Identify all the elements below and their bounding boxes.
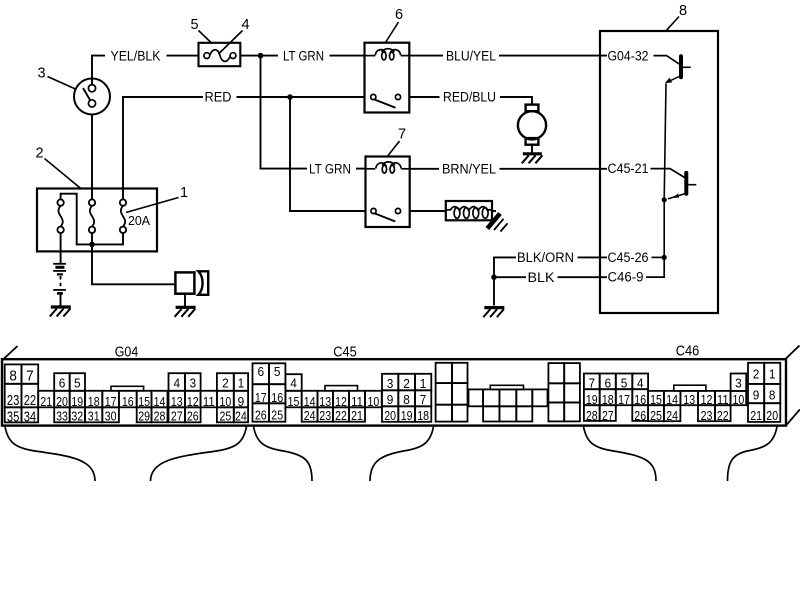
wire Q1 emitter down to Q2 bbox=[664, 84, 666, 200]
pin G04-18 bbox=[85, 391, 102, 408]
wire relay 6 coil output bbox=[409, 55, 443, 57]
svg-text:34: 34 bbox=[24, 408, 36, 425]
harness curve G04 left bbox=[5, 427, 95, 482]
connector G04 left block (pins 8,7,23,22,35,34) bbox=[5, 364, 22, 383]
BLK ground bbox=[483, 308, 504, 318]
svg-text:18: 18 bbox=[417, 408, 429, 423]
svg-text:2: 2 bbox=[222, 375, 229, 390]
svg-text:20: 20 bbox=[766, 408, 778, 423]
svg-text:7: 7 bbox=[420, 392, 427, 407]
pin C46-13 bbox=[680, 391, 698, 405]
svg-text:11: 11 bbox=[203, 394, 215, 409]
wire into relay 7 coil bbox=[366, 168, 376, 170]
pin C45-23 bbox=[318, 407, 334, 421]
wire into relay 6 coil bbox=[365, 55, 376, 57]
svg-text:21: 21 bbox=[40, 394, 52, 409]
svg-text:G04: G04 bbox=[115, 344, 139, 360]
blank connector key tab bbox=[490, 385, 523, 389]
harness curve C46 right bbox=[728, 427, 778, 482]
connector G04 key tab bbox=[111, 386, 144, 391]
svg-text:5: 5 bbox=[74, 375, 81, 390]
wire LT GRN to relay 6 coil bbox=[330, 55, 366, 57]
wire junction down to C46-9 pin bbox=[646, 257, 664, 277]
pin C45-14 bbox=[302, 391, 318, 408]
horn ground bbox=[175, 307, 196, 317]
svg-text:20A: 20A bbox=[128, 213, 150, 228]
control module 8 box bbox=[600, 31, 718, 313]
transistor Q2 (in module) bbox=[668, 173, 696, 199]
svg-text:35: 35 bbox=[7, 408, 19, 425]
wire fuse to LT GRN junction bbox=[240, 55, 278, 57]
pin C46-7 bbox=[584, 374, 600, 390]
pin G04-19 bbox=[70, 391, 85, 408]
pin C45-21 bbox=[349, 407, 365, 421]
washer pump solenoid box bbox=[446, 201, 492, 220]
fuse panel 2 box bbox=[37, 189, 157, 252]
pin G04-29 bbox=[137, 407, 152, 422]
svg-text:23: 23 bbox=[319, 408, 331, 423]
leader line to relay 6 bbox=[386, 22, 399, 43]
connector C45 key tab bbox=[325, 386, 358, 391]
solenoid coil (4 loops) bbox=[446, 207, 492, 219]
svg-text:10: 10 bbox=[368, 394, 380, 409]
svg-text:26: 26 bbox=[634, 408, 646, 423]
svg-text:10: 10 bbox=[733, 392, 745, 407]
pin G04-13 bbox=[169, 391, 186, 408]
pin C46-24 bbox=[664, 405, 681, 421]
wire G04-32 to transistor base bbox=[654, 56, 680, 65]
wire C45-26 stub to junction bbox=[652, 256, 664, 258]
svg-text:9: 9 bbox=[387, 392, 394, 407]
svg-text:16: 16 bbox=[122, 394, 134, 409]
svg-text:1: 1 bbox=[180, 185, 188, 201]
wire relay 6 switch output bbox=[409, 96, 439, 98]
pin C46-28 bbox=[584, 405, 600, 421]
svg-text:6: 6 bbox=[605, 375, 612, 390]
pin C46-23 bbox=[698, 405, 715, 421]
connector C45 right block (pins 3,2,1,9,8,7,20,19,18) bbox=[382, 374, 398, 391]
pin G04-5 bbox=[70, 373, 85, 391]
pin C46-17 bbox=[616, 389, 633, 405]
wire junction down to relay 7 LT GRN bbox=[261, 56, 308, 169]
pin G04-28 bbox=[152, 407, 168, 422]
pin G04-31 bbox=[85, 407, 102, 422]
relay 6 switch contacts bbox=[371, 94, 401, 107]
svg-text:7: 7 bbox=[398, 127, 406, 143]
ignition switch 3 (circle with contacts) bbox=[74, 79, 110, 115]
svg-text:4: 4 bbox=[637, 375, 644, 390]
pin G04-16 bbox=[119, 391, 137, 408]
pin G04-21 bbox=[38, 391, 54, 408]
wire fuse 2-1 to battery bbox=[60, 233, 62, 263]
svg-text:19: 19 bbox=[401, 408, 413, 423]
svg-text:BLU/YEL: BLU/YEL bbox=[446, 48, 496, 63]
relay 7 box bbox=[366, 157, 410, 228]
pin C46-6 bbox=[600, 374, 616, 390]
wire RED junction down to relay 7 switch bbox=[290, 97, 366, 211]
svg-text:C46-9: C46-9 bbox=[608, 270, 644, 285]
wire fuse panel to horn bbox=[92, 244, 175, 284]
svg-text:2: 2 bbox=[753, 367, 760, 382]
junction node at LT GRN bbox=[258, 53, 264, 59]
relay 6 coil bbox=[375, 49, 401, 60]
pin G04-3 bbox=[185, 373, 201, 391]
fuse 5 box bbox=[199, 43, 241, 66]
svg-text:4: 4 bbox=[290, 376, 297, 391]
svg-text:28: 28 bbox=[586, 408, 598, 423]
leader line to fuse element 4 bbox=[219, 31, 243, 55]
svg-text:26: 26 bbox=[187, 409, 199, 424]
svg-text:20: 20 bbox=[384, 408, 396, 423]
wire horn to ground bbox=[184, 294, 186, 306]
pin C45-22 bbox=[333, 407, 349, 421]
wire relay 7 coil output bbox=[410, 168, 439, 170]
svg-text:24: 24 bbox=[666, 408, 678, 423]
svg-text:4: 4 bbox=[241, 17, 249, 33]
connector C46 key tab bbox=[674, 385, 706, 391]
wire RED corner from fuse panel bbox=[123, 97, 203, 199]
pin C45-10 bbox=[365, 391, 382, 408]
pin C46-27 bbox=[600, 405, 616, 421]
pin G04-25 bbox=[217, 407, 234, 422]
leader line to fuse box 5 bbox=[199, 31, 213, 44]
svg-text:22: 22 bbox=[335, 408, 347, 423]
svg-text:25: 25 bbox=[650, 408, 662, 423]
svg-text:6: 6 bbox=[395, 7, 403, 23]
svg-text:C45-21: C45-21 bbox=[608, 161, 649, 176]
svg-text:31: 31 bbox=[88, 409, 100, 424]
svg-text:8: 8 bbox=[9, 368, 17, 385]
pin C45-24 bbox=[302, 407, 318, 421]
svg-text:1: 1 bbox=[769, 367, 776, 382]
pin G04-9 bbox=[234, 391, 248, 408]
harness curve C45 left bbox=[254, 427, 313, 482]
pin G04-27 bbox=[169, 407, 186, 422]
svg-text:7: 7 bbox=[26, 368, 34, 385]
pin C46-3 bbox=[731, 374, 747, 391]
svg-text:29: 29 bbox=[138, 409, 150, 424]
leader line to switch 3 bbox=[48, 77, 77, 90]
pin C46-22 bbox=[715, 405, 731, 421]
svg-text:8: 8 bbox=[769, 387, 776, 402]
svg-text:30: 30 bbox=[105, 409, 117, 424]
leader line to module 8 bbox=[666, 17, 679, 31]
wire LT GRN to relay 7 coil bbox=[356, 168, 366, 170]
blank connector grid B bbox=[548, 363, 564, 383]
transistor Q1 (in module) bbox=[665, 56, 691, 83]
svg-text:13: 13 bbox=[683, 392, 695, 407]
horn (speaker symbol) bbox=[175, 271, 208, 295]
svg-text:RED/BLU: RED/BLU bbox=[443, 90, 496, 105]
wire battery to ground bbox=[60, 294, 62, 306]
pin G04-14 bbox=[152, 391, 168, 408]
svg-text:YEL/BLK: YEL/BLK bbox=[111, 48, 161, 63]
pin C46-12 bbox=[698, 391, 715, 405]
svg-text:24: 24 bbox=[304, 408, 316, 423]
pin G04-12 bbox=[185, 391, 201, 408]
panel corner bottom-right bbox=[786, 410, 800, 426]
svg-text:2: 2 bbox=[35, 146, 43, 162]
svg-text:1: 1 bbox=[420, 376, 427, 391]
fuse 2-3 (20A) bbox=[120, 199, 126, 233]
svg-text:BLK: BLK bbox=[528, 270, 555, 285]
svg-text:4: 4 bbox=[174, 375, 181, 390]
pin C46-14 bbox=[664, 391, 681, 405]
svg-text:17: 17 bbox=[618, 392, 630, 407]
connector panel outline bbox=[2, 359, 786, 425]
svg-text:25: 25 bbox=[220, 409, 232, 424]
fuse 2-2 bbox=[89, 199, 95, 233]
svg-text:C46: C46 bbox=[676, 343, 700, 359]
leader line to relay 7 bbox=[388, 141, 400, 156]
junction node RED bbox=[287, 94, 293, 100]
svg-text:6: 6 bbox=[258, 364, 265, 379]
relay 7 coil bbox=[376, 162, 402, 173]
pin G04-32 bbox=[70, 407, 85, 422]
pin C45-15 bbox=[285, 391, 301, 408]
svg-text:5: 5 bbox=[190, 17, 198, 33]
svg-text:28: 28 bbox=[154, 409, 166, 424]
wire BLU/YEL to module bbox=[499, 55, 607, 57]
pin G04-33 bbox=[54, 407, 69, 422]
pin C45-13 bbox=[318, 391, 334, 408]
harness curve G04 right bbox=[151, 427, 247, 482]
wire relay 7 coil to box edge bbox=[401, 168, 409, 170]
svg-text:3: 3 bbox=[37, 66, 45, 82]
pin C46-5 bbox=[616, 374, 633, 390]
pin G04-10 bbox=[217, 391, 234, 408]
wire switch 3 down to fuse 2-2 bbox=[91, 115, 93, 200]
relay 6 box bbox=[365, 43, 410, 113]
leader line to fuse panel 2 bbox=[45, 159, 81, 189]
svg-text:22: 22 bbox=[717, 408, 729, 423]
pin C46-18 bbox=[600, 389, 616, 405]
leader line from 20A fuse to label 1 bbox=[126, 198, 179, 213]
harness curve C46 left bbox=[584, 427, 657, 482]
wire BLK/ORN corner bbox=[494, 257, 516, 305]
junction node Q2 emitter bbox=[662, 197, 667, 202]
svg-text:33: 33 bbox=[56, 409, 68, 424]
fuse panel internal stub fuse 2-2 bbox=[91, 233, 93, 244]
connector C46 right block (pins 2,1,9,8,21,20) bbox=[748, 363, 764, 384]
wire BLK to module bbox=[558, 276, 608, 278]
pin G04-17 bbox=[102, 391, 119, 408]
svg-text:5: 5 bbox=[621, 375, 628, 390]
svg-text:8: 8 bbox=[403, 392, 410, 407]
wire BLK/ORN to module bbox=[578, 256, 608, 258]
svg-text:5: 5 bbox=[274, 364, 281, 379]
svg-text:7: 7 bbox=[589, 375, 596, 390]
pin G04-26 bbox=[185, 407, 201, 422]
svg-text:26: 26 bbox=[255, 408, 267, 423]
svg-text:LT GRN: LT GRN bbox=[283, 48, 324, 63]
pin C46-26 bbox=[632, 405, 648, 421]
pin G04-24 bbox=[234, 407, 248, 422]
wire RED/BLU to motor bbox=[500, 97, 532, 105]
battery ground bbox=[50, 307, 71, 317]
fuse element 4 bbox=[204, 50, 236, 62]
pin G04-6 bbox=[54, 373, 69, 391]
svg-text:1: 1 bbox=[238, 375, 245, 390]
svg-text:21: 21 bbox=[750, 408, 762, 423]
wire C45-21 to transistor Q2 base bbox=[651, 169, 685, 178]
svg-text:27: 27 bbox=[602, 408, 614, 423]
relay 7 switch contacts bbox=[371, 208, 401, 221]
svg-text:3: 3 bbox=[190, 375, 197, 390]
wire from switch 3 up to YEL/BLK bbox=[92, 56, 105, 85]
wire YEL/BLK to fuse 5 bbox=[167, 55, 199, 57]
pin C46-16 bbox=[632, 389, 648, 405]
svg-text:2: 2 bbox=[403, 376, 410, 391]
wire Q2 emitter down to C45-26 bbox=[663, 200, 665, 258]
junction node in fuse panel bbox=[89, 242, 95, 248]
blank connector cells (middle) bbox=[469, 389, 484, 406]
wire relay 7 switch output to solenoid bbox=[410, 210, 446, 212]
pin C46-10 bbox=[731, 391, 747, 405]
svg-text:3: 3 bbox=[387, 376, 394, 391]
svg-text:RED: RED bbox=[205, 90, 232, 105]
battery symbol bbox=[53, 264, 66, 294]
chassis ground (slanted) bbox=[487, 214, 507, 232]
svg-text:25: 25 bbox=[271, 408, 283, 423]
svg-text:32: 32 bbox=[71, 409, 83, 424]
svg-text:24: 24 bbox=[235, 409, 247, 424]
pin G04-2 bbox=[217, 373, 234, 391]
svg-text:G04-32: G04-32 bbox=[608, 48, 649, 63]
pin G04-15 bbox=[137, 391, 152, 408]
svg-text:27: 27 bbox=[171, 409, 183, 424]
pin G04-20 bbox=[54, 391, 69, 408]
svg-text:BRN/YEL: BRN/YEL bbox=[442, 162, 496, 177]
motor M (washer motor) bbox=[518, 105, 546, 145]
pin C46-15 bbox=[648, 391, 664, 405]
svg-text:6: 6 bbox=[59, 375, 66, 390]
junction node BLK bbox=[491, 274, 497, 280]
pin C45-11 bbox=[349, 391, 365, 408]
panel corner top-left bbox=[3, 346, 18, 360]
pin C45-12 bbox=[333, 391, 349, 408]
wire BRN/YEL to module C45-21 bbox=[500, 168, 608, 170]
pin G04-30 bbox=[102, 407, 119, 422]
svg-text:C45-26: C45-26 bbox=[608, 250, 649, 265]
connector C45 left block (pins 6,5,17,16,26,25) bbox=[253, 363, 270, 384]
svg-text:LT GRN: LT GRN bbox=[309, 161, 351, 176]
blank connector grid A bbox=[436, 363, 452, 383]
pin C46-19 bbox=[584, 389, 600, 405]
svg-text:21: 21 bbox=[351, 408, 363, 423]
fuse panel internal wire (fuse 2-1 top link) bbox=[61, 194, 123, 245]
pin C46-4 bbox=[632, 374, 648, 390]
wire motor to ground bbox=[531, 145, 533, 153]
wire BLK from junction bbox=[494, 276, 526, 278]
motor ground bbox=[522, 154, 543, 164]
fuse 2-1 bbox=[57, 199, 63, 233]
svg-text:9: 9 bbox=[753, 387, 760, 402]
svg-text:8: 8 bbox=[679, 3, 687, 19]
wire solenoid to chassis ground bbox=[492, 210, 496, 212]
svg-text:BLK/ORN: BLK/ORN bbox=[517, 250, 574, 265]
svg-text:3: 3 bbox=[735, 375, 742, 390]
junction node C45-26 bbox=[662, 255, 667, 260]
pin G04-4 bbox=[169, 373, 186, 391]
harness curve C45 right bbox=[370, 427, 434, 482]
svg-text:23: 23 bbox=[701, 408, 713, 423]
pin C46-11 bbox=[715, 391, 731, 405]
panel corner top-right bbox=[786, 346, 800, 359]
wire relay 6 coil to box edge bbox=[401, 55, 410, 57]
svg-text:C45: C45 bbox=[333, 344, 357, 360]
pin G04-1 bbox=[234, 373, 248, 391]
pin C45-4 bbox=[285, 374, 301, 391]
pin C46-25 bbox=[648, 405, 664, 421]
svg-text:15: 15 bbox=[288, 394, 300, 409]
pin G04-11 bbox=[201, 391, 217, 408]
wire RED to relay 6 switch bbox=[237, 96, 366, 98]
